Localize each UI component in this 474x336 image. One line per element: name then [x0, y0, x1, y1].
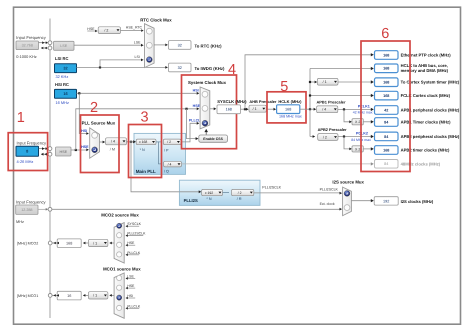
AHB Prescaler label [249, 99, 277, 104]
svg-text:3: 3 [141, 110, 149, 126]
wire HSE to CSS [187, 109, 199, 140]
annotation number 3 [141, 110, 149, 126]
output value box 168 row 4 [375, 91, 399, 100]
I2S clocks label [401, 199, 434, 204]
MCO1 source mux [114, 273, 124, 318]
svg-text:42 MHz max: 42 MHz max [353, 111, 373, 115]
svg-text:PLLI2SCLK: PLLI2SCLK [262, 186, 281, 190]
wire trunk to APB2 [310, 135, 315, 138]
I2S source mux [343, 187, 352, 216]
wire X2 to APB2 timer output [363, 147, 374, 150]
svg-text:Main PLL: Main PLL [136, 169, 156, 174]
MCO2 input HSE [126, 241, 136, 246]
MCO1 input HSI [126, 294, 136, 299]
svg-text:HSE: HSE [127, 241, 135, 245]
svg-text:Enable CSS: Enable CSS [203, 137, 223, 141]
svg-text:/ 1: / 1 [323, 80, 327, 84]
PLL multiplier N x168 [136, 139, 156, 145]
PLLCLK label at system mux [189, 119, 204, 123]
HSI frequency label 16 MHz [56, 100, 69, 105]
svg-text:To RTC (KHz): To RTC (KHz) [195, 43, 223, 48]
wire into PLLI2S N [179, 190, 201, 193]
APB2 prescaler /2 [318, 134, 338, 141]
RTC clock mux [145, 24, 155, 68]
LSE input frequency label [16, 35, 47, 40]
APB1 Prescaler label [317, 100, 346, 105]
wire LSI branch to RTC mux [100, 59, 144, 68]
wire HSI branch to PLL source mux [79, 93, 89, 135]
svg-text:/ R: / R [237, 197, 242, 201]
MCO1 pin [48, 294, 52, 298]
svg-text:LSI: LSI [135, 55, 140, 59]
SYSCLK value box 168 [217, 105, 241, 114]
annotation number 2 [90, 100, 98, 116]
MCO2 pin [48, 241, 52, 245]
svg-text:168: 168 [383, 67, 389, 71]
wire N to P [156, 141, 161, 143]
svg-text:HCLK (MHz): HCLK (MHz) [278, 99, 302, 104]
HSE label at RTC divider [87, 27, 97, 32]
svg-text:32.768: 32.768 [22, 44, 33, 48]
MCO1 value box 16 [57, 291, 81, 300]
svg-text:/ 1: / 1 [93, 241, 97, 245]
wire RTC mux to RTC box [154, 44, 168, 47]
PLL P label [164, 149, 169, 153]
wire M divider to Main PLL [127, 140, 136, 143]
svg-text:I2S source Mux: I2S source Mux [332, 180, 364, 185]
svg-text:5: 5 [280, 79, 288, 95]
svg-text:PLL Source Mux: PLL Source Mux [82, 121, 116, 126]
svg-text:0-1000 KHz: 0-1000 KHz [16, 54, 37, 59]
wire LSE to RTC mux [74, 44, 144, 47]
wire MCO1 value box to pin [52, 294, 59, 297]
MCO2 source mux [114, 223, 124, 263]
svg-text:AHB Prescaler: AHB Prescaler [249, 99, 277, 104]
HSE label at PLL mux [81, 145, 89, 149]
svg-text:1: 1 [17, 110, 25, 126]
svg-text:HSE: HSE [127, 284, 135, 288]
wire ext clock to I2S mux [52, 208, 342, 211]
wire HSI to system clock mux [77, 92, 200, 95]
svg-text:16: 16 [67, 294, 71, 298]
PLLI2S title [184, 198, 198, 203]
output value box 168 row 2 [375, 64, 399, 73]
APB2 timer multiplier X2 [352, 146, 363, 152]
wire HCLK to trunk [300, 108, 316, 111]
wire APB1 branch to X2 [344, 109, 352, 123]
PLLI2S multiplier N x192 [202, 189, 223, 195]
LSE pin OSC32_IN [48, 41, 52, 45]
PCLK2 label [356, 132, 368, 136]
output label To Cortex System timer (MHz) [401, 80, 460, 85]
PLLI2SCLK label at I2S mux [320, 187, 339, 191]
wire into PLL N [127, 140, 137, 143]
output label APB1 peripheral clocks (MHz) [401, 108, 460, 113]
MCO2 input PLLI2SCLK [126, 232, 147, 237]
MCO2 input SYSCLK [126, 222, 142, 227]
output value box 84 row 7 [375, 132, 399, 141]
svg-text:RTC Clock Mux: RTC Clock Mux [140, 17, 172, 22]
chip boundary line [49, 19, 51, 319]
divider M label [110, 147, 115, 151]
Ext clock label at I2S mux [320, 202, 335, 206]
svg-text:SYSCLK (MHz): SYSCLK (MHz) [217, 99, 247, 104]
APB2 Prescaler label [318, 127, 347, 132]
svg-text:12.288: 12.288 [21, 208, 32, 212]
wire APB2 branch to X2 [344, 137, 352, 151]
HSE input frequency label [17, 140, 48, 145]
svg-text:PLLI2S: PLLI2S [184, 198, 198, 203]
annotation box 6 [361, 41, 410, 172]
annotation number 6 [381, 26, 389, 42]
HSE pin OSC_IN [48, 147, 52, 151]
RTC HSE divider /2 [98, 27, 120, 34]
svg-text:Ethernet PTP clock (MHz): Ethernet PTP clock (MHz) [401, 53, 452, 58]
wire N branch to Q [158, 142, 161, 164]
annotation box 1 [8, 133, 47, 171]
LSE OSC_OUT arrow [41, 47, 48, 50]
svg-text:48MHz clocks (MHz): 48MHz clocks (MHz) [401, 161, 441, 166]
svg-text:Ext. clock: Ext. clock [320, 202, 335, 206]
MCO2 source Mux title [101, 213, 139, 218]
svg-text:/ 4: / 4 [111, 140, 115, 144]
I2S CKIN frequency box 12.288 (disabled) [16, 205, 38, 214]
system clock mux [200, 87, 210, 129]
output label APB2 timer clocks (MHz) [401, 148, 450, 153]
svg-text:* N: * N [206, 197, 211, 201]
svg-text:memory and DMA (MHz): memory and DMA (MHz) [401, 68, 449, 73]
PLLI2S R label [237, 197, 242, 201]
LSE label at RTC mux [134, 40, 141, 44]
HSI label at PLL mux [81, 129, 87, 133]
svg-text:[MHz] MCO2: [MHz] MCO2 [17, 242, 38, 246]
wire MCO1 divider to value box [83, 294, 89, 297]
MCO1 input HSE [126, 284, 136, 289]
AHB prescaler /1 [249, 105, 266, 112]
output label HCLK to AHB line2 [401, 68, 449, 73]
wire MCO2 value box to pin [52, 242, 59, 245]
svg-text:168: 168 [383, 94, 389, 98]
svg-text:PLLI2SCLK: PLLI2SCLK [320, 187, 339, 191]
svg-text:84: 84 [384, 162, 388, 166]
svg-text:HSI: HSI [127, 294, 133, 298]
HSI RC label [55, 82, 69, 87]
svg-text:6: 6 [381, 26, 389, 42]
wire HSE riser to system clock mux [76, 107, 200, 150]
HSE pin OSC_OUT [48, 152, 52, 156]
MCO2 value box 168 [57, 239, 81, 248]
wire CSS to mux [204, 129, 208, 135]
wire 48MHz from Q (disabled) [182, 162, 374, 165]
MCO2 input PLLCLK [126, 251, 141, 256]
svg-text:HSE: HSE [81, 145, 89, 149]
svg-text:/ 4: / 4 [322, 108, 326, 112]
PCLK1 label [358, 104, 370, 108]
HSE label at system mux [193, 104, 201, 108]
svg-text:/ 2: / 2 [104, 29, 108, 33]
svg-text:PCLK2: PCLK2 [356, 132, 368, 136]
MCO2 divider /1 [88, 239, 108, 246]
HSE input frequency box 8 [16, 146, 39, 156]
svg-text:Input Frequency: Input Frequency [16, 35, 47, 40]
PLL Q label [164, 170, 169, 174]
HCLK value box 168 [277, 105, 300, 114]
wire SYSCLK to AHB prescaler [241, 108, 249, 111]
LSI label at RTC mux [135, 55, 140, 59]
SYSCLK label [217, 99, 247, 104]
output label APB2 peripheral clocks (MHz) [401, 134, 460, 139]
I2S CKIN pin [48, 207, 52, 211]
I2S source Mux title [332, 180, 364, 185]
MCO2 pin label [17, 242, 38, 246]
svg-text:168: 168 [285, 108, 291, 112]
output label APB1 Timer clocks (MHz) [401, 120, 451, 125]
svg-text:MCO2 source Mux: MCO2 source Mux [101, 213, 139, 218]
svg-text:4: 4 [228, 62, 236, 78]
LSE OSC_IN arrow [39, 41, 49, 44]
svg-text:APB1 Prescaler: APB1 Prescaler [317, 100, 346, 105]
APB1 prescaler /4 [317, 106, 338, 113]
LSE input frequency box 32.768 [16, 41, 39, 50]
APB1 timer multiplier X2 [352, 119, 363, 125]
HSE oscillator box [56, 147, 72, 156]
Enable CSS button [199, 135, 228, 142]
svg-text:APB1 Timer clocks (MHz): APB1 Timer clocks (MHz) [401, 120, 451, 125]
output value box 84 row 6 [375, 118, 399, 127]
IWDG output box 32 [169, 63, 192, 72]
svg-text:168: 168 [66, 242, 72, 246]
PLLI2SCLK wire label [262, 186, 281, 190]
svg-text:/ 2: / 2 [238, 191, 242, 195]
LSI RC label [55, 56, 68, 61]
PLL divider P /2 [163, 139, 181, 145]
PLL source mux [90, 128, 100, 158]
PLL Source Mux title [82, 121, 116, 126]
svg-text:/ P: / P [164, 149, 169, 153]
svg-text:PLLI2SCLK: PLLI2SCLK [127, 232, 146, 236]
MCO1 source Mux title [103, 266, 141, 271]
svg-text:LSI RC: LSI RC [55, 56, 68, 61]
svg-text:HSE: HSE [193, 104, 201, 108]
svg-text:4-26 MHz: 4-26 MHz [17, 159, 34, 164]
svg-text:Input Frequency: Input Frequency [17, 140, 48, 145]
LSE pin OSC32_OUT [48, 46, 52, 50]
output value box 168 row 1 [375, 51, 399, 60]
wire trunk to FCLK output [309, 94, 374, 97]
I2S output value box 192 [374, 197, 398, 205]
svg-text:2: 2 [90, 100, 98, 116]
annotation number 1 [17, 110, 25, 126]
svg-text:/ 2: / 2 [323, 135, 327, 139]
svg-text:42: 42 [384, 108, 388, 112]
svg-text:FCLK Cortex clock (MHz): FCLK Cortex clock (MHz) [401, 93, 451, 98]
svg-text:To IWDG (KHz): To IWDG (KHz) [195, 66, 225, 71]
svg-text:X 2: X 2 [355, 147, 360, 151]
PLLI2S divider R /2 [232, 189, 254, 195]
svg-text:APB2 timer clocks (MHz): APB2 timer clocks (MHz) [401, 148, 450, 153]
wire X2 to APB1 timer output [363, 120, 374, 123]
HSI label at system mux [193, 89, 199, 93]
output value box 84 row 9 [375, 160, 399, 169]
LSE oscillator box (disabled) [54, 41, 75, 50]
svg-text:HSE_RTC: HSE_RTC [126, 26, 143, 30]
svg-text:LSE: LSE [134, 40, 141, 44]
MCO1 input LSE [126, 274, 136, 279]
svg-text:LSE: LSE [60, 44, 68, 48]
svg-text:168: 168 [383, 81, 389, 85]
wire system mux to SYSCLK box [210, 107, 217, 110]
PLL divider M /4 [106, 138, 127, 145]
wire HCLK trunk vertical [309, 69, 311, 137]
svg-text:[MHz] MCO1: [MHz] MCO1 [17, 294, 38, 298]
svg-text:x 192: x 192 [205, 191, 213, 195]
RTC Clock Mux title [140, 17, 172, 22]
HSE_RTC label [126, 26, 143, 30]
svg-text:HSI RC: HSI RC [55, 82, 69, 87]
svg-text:PCLK1: PCLK1 [358, 104, 370, 108]
MCO1 input PLLCLK [126, 304, 141, 309]
svg-text:HSI: HSI [81, 129, 87, 133]
svg-text:HSE: HSE [59, 150, 67, 154]
wire Ethernet PTP tap [245, 53, 374, 109]
svg-text:PLLCLK: PLLCLK [127, 304, 141, 308]
I2S CKIN unit label MHz [16, 219, 24, 224]
wire MCO2 divider to value box [83, 242, 89, 245]
svg-text:168: 168 [226, 108, 232, 112]
System Clock Mux title [188, 80, 227, 85]
svg-text:/ 4: / 4 [168, 162, 172, 166]
HCLK label [278, 99, 302, 104]
annotation number 5 [280, 79, 288, 95]
output value box 42 row 5 [375, 106, 399, 115]
PCLK2 max label [351, 138, 371, 142]
Main PLL block [134, 133, 186, 174]
LSI frequency label 32 KHz [56, 74, 69, 79]
wire I2S mux to output [351, 199, 373, 202]
PLL divider Q /4 [164, 161, 182, 167]
svg-text:I2S clocks (MHz): I2S clocks (MHz) [401, 199, 434, 204]
annotation number 4 [228, 62, 236, 78]
PCLK1 max label [353, 111, 373, 115]
svg-text:SYSCLK: SYSCLK [127, 222, 141, 226]
svg-text:APB2 Prescaler: APB2 Prescaler [318, 127, 347, 132]
HSI RC oscillator box 16 [55, 89, 77, 98]
svg-text:32 KHz: 32 KHz [56, 74, 69, 79]
wire trunk to HCLK AHB output [310, 67, 374, 70]
wire M divider branch to PLLI2S [131, 142, 201, 193]
svg-text:* N: * N [140, 148, 145, 152]
annotation box 2 [81, 115, 120, 173]
wire AHB to HCLK [266, 108, 276, 111]
MCO1 divider /1 [88, 292, 108, 299]
To IWDG label [195, 66, 225, 71]
svg-text:/ Q: / Q [164, 170, 169, 174]
svg-text:/ 1: / 1 [253, 107, 257, 111]
annotation box 3 [129, 125, 162, 178]
svg-text:168 MHz max: 168 MHz max [279, 114, 302, 118]
wire MCO2 mux to divider [109, 242, 114, 245]
To RTC label [195, 43, 223, 48]
annotation box 4 [182, 75, 237, 149]
svg-text:/ 1: / 1 [93, 294, 97, 298]
svg-text:LSE: LSE [127, 274, 134, 278]
PLLI2S block [179, 180, 260, 205]
wire LSI to IWDG [77, 66, 168, 69]
HSE range label 4-26 MHz [17, 159, 34, 164]
output label FCLK Cortex clock (MHz) [401, 93, 451, 98]
svg-text:192: 192 [383, 199, 389, 203]
wire PLLI2SCLK to I2S mux [254, 192, 342, 195]
I2S CKIN arrow [38, 208, 48, 211]
PLL N label [140, 148, 145, 152]
svg-text:/ M: / M [110, 147, 115, 151]
wire I2S N to R [223, 192, 230, 194]
svg-text:X 2: X 2 [355, 120, 360, 124]
wire APB2 to output [338, 135, 374, 138]
svg-text:168: 168 [383, 148, 389, 152]
wire PLL mux to divider M [100, 141, 106, 144]
LSE range label 0-1000 KHz [16, 54, 37, 59]
svg-text:HSE: HSE [87, 27, 95, 31]
MCO1 pin label [17, 294, 38, 298]
annotation box 5 [267, 92, 306, 123]
svg-text:x 168: x 168 [139, 140, 147, 144]
wire PLLCLK from P to system mux [181, 122, 199, 142]
svg-text:MHz: MHz [16, 219, 24, 224]
output label Ethernet PTP clock (MHz) [401, 53, 452, 58]
svg-text:/ 2: / 2 [167, 140, 171, 144]
svg-text:16 MHz: 16 MHz [56, 100, 69, 105]
svg-text:32: 32 [178, 66, 182, 70]
wire MCO1 mux to divider [109, 294, 114, 297]
HSE OSC_IN arrow [39, 147, 48, 150]
svg-text:32: 32 [178, 43, 182, 47]
wire trunk to cortex divider [309, 81, 317, 84]
wire APB1 to output [338, 108, 374, 111]
output label 48MHz clocks (MHz) [401, 161, 441, 166]
LSI RC oscillator box 32 [55, 64, 77, 73]
wire HSE to PLL source mux [71, 148, 89, 151]
svg-text:PLLCLK: PLLCLK [127, 251, 141, 255]
I2S CKIN input frequency label [16, 199, 47, 204]
svg-text:HSI: HSI [193, 89, 199, 93]
wire cortex divider to output [338, 80, 374, 83]
svg-text:168: 168 [383, 53, 389, 57]
HCLK max label [279, 114, 302, 118]
svg-text:MCO1 source Mux: MCO1 source Mux [103, 266, 141, 271]
svg-text:Input Frequency: Input Frequency [16, 199, 47, 204]
RTC output box 32 [169, 41, 192, 50]
cortex prescaler /1 [317, 78, 338, 85]
output label HCLK to AHB line1 [401, 63, 448, 68]
PLLI2S N label [206, 197, 211, 201]
output value box 168 row 3 [375, 78, 399, 87]
Main PLL title [136, 169, 156, 174]
output value box 168 row 8 [375, 146, 399, 155]
HSE OSC_OUT arrow [41, 153, 48, 156]
svg-text:System Clock Mux: System Clock Mux [188, 80, 227, 85]
wire HSE_RTC to RTC mux [121, 29, 144, 32]
